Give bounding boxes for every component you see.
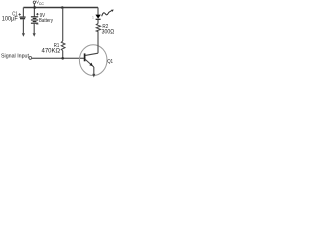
wire Vcc to battery bbox=[33, 3, 35, 16]
battery minus sign bbox=[36, 23, 38, 25]
wire R1 top lead bbox=[62, 8, 64, 41]
transistor Q1 base bar bbox=[84, 53, 86, 61]
wire emitter down bbox=[93, 67, 95, 74]
junction dot rail/R1 bbox=[61, 6, 64, 9]
battery BT1 plates bbox=[31, 16, 38, 18]
capacitor C1 plus sign bbox=[19, 13, 21, 15]
transistor Q1 circle bbox=[79, 45, 107, 76]
svg-text:Battery: Battery bbox=[39, 17, 53, 24]
wire signal input to base bbox=[32, 57, 85, 59]
input terminal circle bbox=[29, 57, 32, 60]
svg-text:Q1: Q1 bbox=[107, 59, 113, 64]
resistor R2 zigzag bbox=[96, 23, 100, 31]
svg-text:CC: CC bbox=[39, 2, 45, 6]
transistor Q1 emitter diagonal with arrow bbox=[85, 59, 94, 67]
battery BT1 plus sign bbox=[36, 13, 38, 15]
wire collector to R2 bbox=[97, 31, 99, 53]
svg-text:1: 1 bbox=[92, 15, 94, 19]
wire LED to R2 bbox=[97, 20, 99, 24]
wire battery bottom lead bbox=[33, 24, 35, 34]
wire C1 bottom lead bbox=[22, 19, 24, 33]
ground arrow (emitter) bbox=[92, 74, 95, 78]
svg-text:Signal Input: Signal Input bbox=[1, 53, 30, 59]
wire Vcc top rail bbox=[23, 7, 98, 9]
transistor Q1 collector diagonal bbox=[85, 53, 98, 55]
LED D1 cathode bar bbox=[96, 18, 101, 20]
wire rail corner to LED bbox=[97, 8, 99, 15]
svg-text:100µF: 100µF bbox=[2, 16, 18, 22]
Vcc terminal circle bbox=[33, 1, 35, 3]
capacitor C1 plates bbox=[20, 16, 26, 18]
LED D1 triangle bbox=[95, 15, 100, 19]
ground arrow (C1 branch) bbox=[22, 33, 25, 37]
wire C1 top lead (corner from rail) bbox=[22, 8, 24, 17]
junction dot rail/battery bbox=[33, 6, 36, 9]
resistor R1 zigzag bbox=[61, 41, 65, 51]
svg-text:470KΩ: 470KΩ bbox=[42, 47, 61, 54]
junction dot R1/base wire bbox=[61, 57, 64, 60]
svg-text:300Ω: 300Ω bbox=[102, 29, 115, 36]
ground arrow (battery branch) bbox=[33, 33, 36, 37]
LED light ray wavy arrow bbox=[102, 11, 112, 17]
wire R1 bottom lead bbox=[62, 51, 64, 59]
